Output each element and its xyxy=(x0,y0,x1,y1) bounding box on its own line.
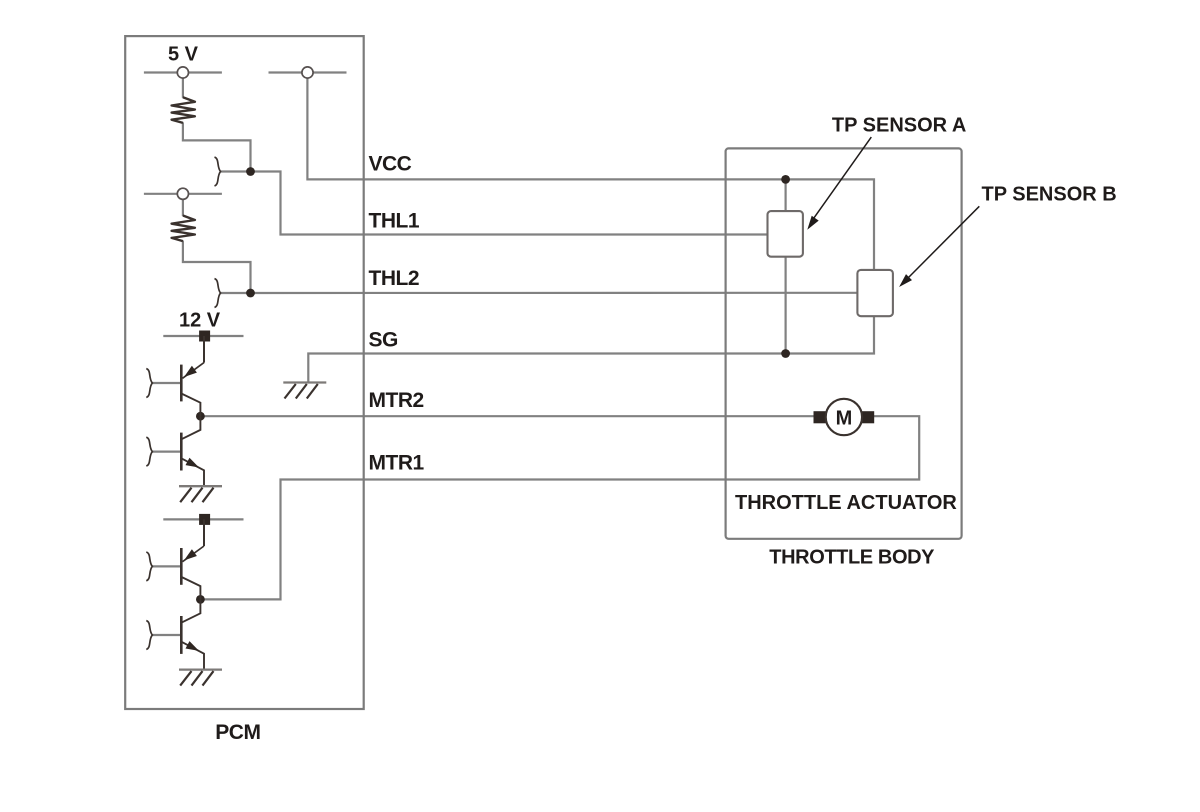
svg-text:5 V: 5 V xyxy=(168,44,199,66)
svg-text:TP SENSOR B: TP SENSOR B xyxy=(982,184,1117,206)
svg-text:SG: SG xyxy=(369,328,399,351)
svg-text:M: M xyxy=(836,407,853,429)
svg-text:12 V: 12 V xyxy=(179,310,221,332)
svg-text:VCC: VCC xyxy=(369,153,412,176)
svg-text:THL1: THL1 xyxy=(369,209,420,232)
svg-text:THL2: THL2 xyxy=(369,267,420,290)
svg-text:MTR1: MTR1 xyxy=(369,451,425,474)
svg-text:THROTTLE BODY: THROTTLE BODY xyxy=(769,547,935,569)
svg-text:PCM: PCM xyxy=(215,721,260,744)
svg-text:TP SENSOR A: TP SENSOR A xyxy=(832,115,966,137)
svg-text:THROTTLE ACTUATOR: THROTTLE ACTUATOR xyxy=(735,492,957,514)
svg-text:MTR2: MTR2 xyxy=(369,389,424,412)
